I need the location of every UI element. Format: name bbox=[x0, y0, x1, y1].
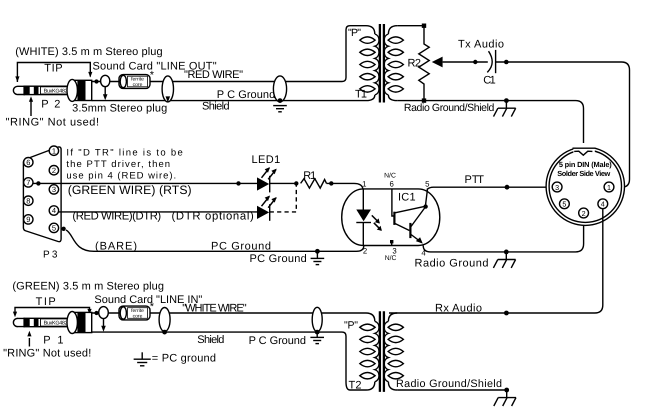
LED1 top diode bbox=[257, 167, 296, 192]
transformer T2 primary winding bbox=[360, 313, 379, 390]
svg-text:*: * bbox=[150, 70, 155, 82]
wire P3 pin4 DTR to LED1 bbox=[59, 211, 257, 213]
label T1 bbox=[355, 89, 367, 101]
svg-text:P 1: P 1 bbox=[43, 335, 63, 347]
wire radio ground/shield bus (top) bbox=[397, 101, 583, 149]
shield loop on P2 signal wire bbox=[101, 75, 110, 100]
svg-text:5: 5 bbox=[52, 224, 56, 233]
IC1 internal LED bbox=[356, 189, 371, 246]
svg-text:BuxKG482: BuxKG482 bbox=[44, 89, 68, 95]
label P C Ground (top) bbox=[217, 89, 275, 101]
wire P3 pin5 to PC ground bus bbox=[61, 227, 363, 252]
P3 pins 1-9 bbox=[24, 146, 59, 233]
label Sound Card LINE IN bbox=[94, 294, 202, 306]
svg-text:= PC ground: = PC ground bbox=[152, 353, 216, 365]
connector P3 DB9 outline bbox=[23, 147, 61, 242]
svg-text:(RED WIRE)(DTR): (RED WIRE)(DTR) bbox=[72, 210, 161, 222]
svg-text:"RING" Not used!: "RING" Not used! bbox=[3, 347, 91, 359]
svg-text:Solder Side View: Solder Side View bbox=[557, 169, 610, 178]
label (WHITE) 3.5 mm Stereo plug bbox=[15, 46, 162, 58]
svg-text:(WHITE) 3.5 m m Stereo plug: (WHITE) 3.5 m m Stereo plug bbox=[15, 46, 162, 58]
svg-text:Shield: Shield bbox=[197, 334, 224, 346]
svg-text:3.5mm Stereo plug: 3.5mm Stereo plug bbox=[72, 103, 167, 115]
svg-text:IC1: IC1 bbox=[398, 191, 416, 203]
svg-text:3: 3 bbox=[555, 183, 559, 192]
label Sound Card LINE OUT bbox=[93, 60, 217, 72]
connector P1 stereo plug bbox=[13, 312, 91, 334]
IC1 N/C labels bbox=[384, 172, 396, 262]
svg-text:core: core bbox=[133, 82, 143, 88]
connector 5-pin DIN outline bbox=[546, 143, 624, 225]
transformer T1 core bbox=[380, 24, 384, 103]
label C1 bbox=[483, 75, 496, 87]
svg-text:(GREEN) 3.5 m m Stereo plug: (GREEN) 3.5 m m Stereo plug bbox=[12, 280, 164, 292]
label PC Ground (below) bbox=[250, 253, 307, 265]
svg-text:LED1: LED1 bbox=[252, 154, 281, 166]
label Tx Audio bbox=[458, 39, 504, 51]
wire radio ground IC1 pin4 to DIN pin2 bbox=[423, 213, 583, 254]
label PTT bbox=[465, 174, 485, 186]
svg-text:T1: T1 bbox=[355, 89, 367, 101]
svg-text:5: 5 bbox=[562, 200, 566, 209]
svg-text:(BARE): (BARE) bbox=[95, 241, 137, 253]
chassis ground (top shield) bbox=[494, 98, 516, 116]
TIP bracket pointer bbox=[15, 63, 92, 83]
transformer T2 secondary winding bbox=[384, 313, 403, 390]
svg-text:Radio Ground/Shield: Radio Ground/Shield bbox=[404, 102, 495, 114]
label P 2 bbox=[41, 98, 60, 110]
label Shield (top) bbox=[202, 101, 230, 113]
label (GREEN) 3.5 mm Stereo plug bbox=[12, 280, 164, 292]
ferrite core (bottom) bbox=[119, 301, 155, 320]
label RING Not used (bottom) bbox=[3, 347, 91, 359]
label Radio Ground/Shield (bottom) bbox=[396, 378, 502, 390]
ring pointer P1 bbox=[27, 331, 31, 347]
svg-text:Shield: Shield bbox=[202, 101, 230, 113]
label 3.5mm Stereo plug bbox=[72, 103, 167, 115]
label Solder Side View bbox=[557, 169, 610, 178]
svg-text:P C Ground: P C Ground bbox=[249, 335, 306, 347]
label "P" (T2) bbox=[344, 320, 358, 332]
svg-text:4: 4 bbox=[52, 206, 56, 215]
label TIP bbox=[44, 62, 62, 74]
transformer T1 primary winding bbox=[360, 26, 379, 101]
svg-text:TIP: TIP bbox=[36, 296, 56, 308]
label Shield (bottom) bbox=[197, 334, 224, 346]
transformer T1 secondary winding bbox=[384, 26, 403, 101]
wire P1 signal to T2 primary top bbox=[92, 311, 366, 315]
wire C1 to DIN pin 1 bbox=[496, 60, 630, 188]
IC1 transistor Q1 bbox=[392, 189, 424, 231]
svg-text:2: 2 bbox=[52, 166, 56, 175]
transformer T2 core bbox=[380, 311, 384, 392]
TIP bracket pointer (bottom) bbox=[13, 308, 92, 318]
PC ground symbol (bottom cable) bbox=[310, 332, 324, 344]
svg-text:"P": "P" bbox=[348, 27, 361, 39]
DIN pins 1-5 bbox=[552, 182, 614, 218]
cable loop (top) bbox=[162, 76, 173, 103]
svg-text:3: 3 bbox=[52, 185, 56, 194]
svg-text:"RING" Not used!: "RING" Not used! bbox=[6, 116, 99, 128]
svg-text:P 3: P 3 bbox=[43, 250, 58, 261]
cable loop at PC ground (top) bbox=[273, 76, 286, 103]
wire T2 secondary bottom radio ground bbox=[397, 389, 507, 391]
label P C Ground (bottom) bbox=[249, 335, 306, 347]
cable loop at PC ground (bottom) bbox=[312, 307, 322, 334]
svg-text:6: 6 bbox=[390, 180, 394, 189]
ferrite core (top) bbox=[119, 70, 155, 89]
shield loop on P1 signal wire bbox=[99, 307, 109, 332]
label T2 bbox=[349, 379, 362, 391]
label RING Not used (top) bbox=[6, 116, 99, 128]
wire P3 pin7 RTS to LED1 bbox=[33, 181, 257, 185]
svg-text:Radio Ground: Radio Ground bbox=[415, 258, 489, 270]
svg-text:2: 2 bbox=[582, 209, 586, 218]
svg-text:TIP: TIP bbox=[44, 62, 62, 74]
label RED WIRE DTR bbox=[72, 210, 254, 223]
label RED WIRE bbox=[184, 69, 243, 81]
ring pointer P2 bbox=[29, 96, 33, 116]
PC ground legend symbol bbox=[134, 352, 151, 366]
label R2 bbox=[408, 58, 422, 70]
capacitor C1 bbox=[487, 50, 495, 73]
IC1 pin labels bbox=[362, 180, 430, 258]
svg-text:"RED WIRE": "RED WIRE" bbox=[184, 69, 243, 81]
label P 3 bbox=[43, 250, 58, 261]
label Rx Audio bbox=[435, 302, 482, 314]
svg-text:N/C: N/C bbox=[384, 172, 396, 179]
chassis ground (middle) bbox=[493, 252, 515, 268]
R2 wiper arrow bbox=[432, 57, 488, 68]
LED1 label bbox=[252, 154, 281, 166]
svg-text:"WHITE WIRE": "WHITE WIRE" bbox=[182, 303, 246, 315]
IC1 coupling arrows bbox=[372, 215, 382, 231]
label GREEN WIRE RTS bbox=[68, 183, 192, 197]
label IC1 bbox=[398, 191, 416, 203]
label BARE bbox=[95, 241, 137, 253]
label "P" (T1) bbox=[348, 27, 361, 39]
wire P2 signal to T1 primary top bbox=[92, 26, 366, 84]
op-amp IC1 optocoupler package bbox=[342, 189, 440, 246]
svg-text:N/C: N/C bbox=[385, 255, 397, 262]
resistor R1 bbox=[301, 179, 363, 189]
wire P2 shield to T1 primary bottom bbox=[92, 100, 366, 102]
svg-text:7: 7 bbox=[26, 178, 30, 187]
svg-text:the PTT driver, then: the PTT driver, then bbox=[66, 159, 170, 170]
wire DIN pin4 to Rx Audio bbox=[389, 204, 603, 316]
svg-text:1: 1 bbox=[607, 183, 611, 192]
label 5 pin DIN (Male) bbox=[559, 160, 612, 169]
svg-text:4: 4 bbox=[601, 200, 605, 209]
IC1 pin3 stub N/C bbox=[390, 240, 393, 246]
label Radio Ground (middle) bbox=[415, 258, 489, 270]
svg-text:PC Ground: PC Ground bbox=[211, 241, 271, 253]
label Radio Ground/Shield (top) bbox=[404, 102, 495, 114]
label If DTR line note bbox=[66, 147, 182, 181]
svg-text:Tx Audio: Tx Audio bbox=[458, 39, 504, 51]
svg-text:(DTR optional): (DTR optional) bbox=[172, 210, 255, 222]
svg-text:1: 1 bbox=[362, 180, 366, 189]
label WHITE WIRE bbox=[182, 303, 246, 315]
label = PC ground bbox=[152, 353, 216, 365]
svg-text:2: 2 bbox=[363, 246, 367, 255]
PC ground earth symbol (middle) bbox=[311, 249, 325, 265]
svg-text:core: core bbox=[133, 313, 143, 319]
PC ground symbol (top cable) bbox=[273, 106, 287, 112]
wire T1 secondary top to R2 bbox=[397, 25, 424, 27]
dashed wire DTR-option to RTS node bbox=[236, 181, 298, 212]
svg-text:1: 1 bbox=[52, 146, 56, 155]
svg-text:*: * bbox=[150, 301, 155, 313]
svg-text:6: 6 bbox=[26, 158, 30, 167]
svg-text:(GREEN WIRE) (RTS): (GREEN WIRE) (RTS) bbox=[68, 183, 192, 197]
connector P2 stereo plug bbox=[13, 79, 91, 101]
svg-text:3: 3 bbox=[392, 246, 396, 255]
wire PTT IC1 pin5 to DIN pin3 bbox=[427, 185, 552, 190]
svg-text:P TT: P TT bbox=[465, 174, 485, 186]
svg-text:8: 8 bbox=[26, 196, 30, 205]
label P 1 bbox=[43, 335, 63, 347]
svg-text:use pin 4 (RED wire).: use pin 4 (RED wire). bbox=[66, 170, 176, 181]
chassis ground (bottom) bbox=[494, 388, 516, 406]
svg-text:Rx Audio: Rx Audio bbox=[435, 302, 482, 314]
resistor R2 (potentiometer) bbox=[419, 24, 429, 103]
svg-text:R2: R2 bbox=[408, 58, 422, 70]
svg-text:9: 9 bbox=[26, 215, 30, 224]
svg-text:BuxKG482: BuxKG482 bbox=[44, 321, 68, 327]
svg-text:T2: T2 bbox=[349, 379, 362, 391]
svg-text:P 2: P 2 bbox=[41, 98, 60, 110]
wire P1 shield to T2 primary bottom bbox=[92, 332, 366, 390]
svg-text:Radio Ground/Shield: Radio Ground/Shield bbox=[396, 378, 502, 390]
svg-text:PC Ground: PC Ground bbox=[250, 253, 307, 265]
cable loop (bottom) bbox=[159, 308, 170, 335]
LED1 bottom diode (DTR optional) bbox=[257, 196, 277, 221]
svg-text:R1: R1 bbox=[303, 170, 316, 182]
label PC Ground (bus above) bbox=[211, 241, 271, 253]
svg-text:"P": "P" bbox=[344, 320, 358, 332]
IC1 transistor Q2 bbox=[410, 189, 427, 244]
svg-text:P C Ground: P C Ground bbox=[217, 89, 275, 101]
label R1 bbox=[303, 170, 316, 182]
label TIP (bottom) bbox=[36, 296, 56, 308]
svg-text:C1: C1 bbox=[483, 75, 496, 87]
